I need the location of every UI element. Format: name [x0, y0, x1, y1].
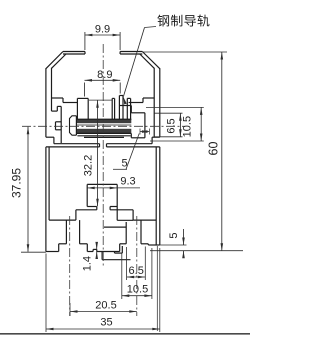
svg-text:10.5: 10.5 [181, 116, 193, 137]
svg-text:32.2: 32.2 [82, 155, 94, 176]
svg-text:20.5: 20.5 [95, 299, 116, 311]
svg-text:6.5: 6.5 [129, 265, 144, 277]
svg-text:10.5: 10.5 [127, 284, 148, 296]
svg-text:1.4: 1.4 [82, 256, 94, 271]
svg-text:60: 60 [207, 142, 221, 156]
svg-text:9.3: 9.3 [120, 175, 135, 187]
svg-text:35: 35 [100, 317, 112, 329]
svg-text:5: 5 [168, 232, 180, 238]
svg-text:6.5: 6.5 [165, 118, 177, 133]
svg-text:9.9: 9.9 [95, 24, 110, 36]
svg-text:37.95: 37.95 [10, 168, 24, 198]
svg-text:8.9: 8.9 [97, 69, 112, 81]
